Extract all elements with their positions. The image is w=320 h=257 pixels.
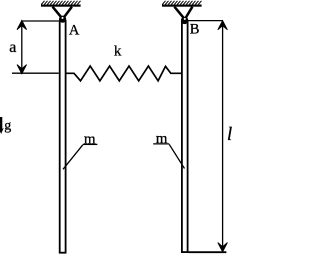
- svg-text:g: g: [4, 119, 11, 134]
- svg-text:l: l: [227, 125, 232, 145]
- svg-text:k: k: [114, 43, 122, 59]
- svg-text:m: m: [84, 132, 96, 148]
- svg-text:a: a: [9, 39, 16, 56]
- svg-text:m: m: [156, 131, 168, 147]
- svg-text:B: B: [190, 22, 200, 38]
- svg-text:A: A: [69, 22, 80, 38]
